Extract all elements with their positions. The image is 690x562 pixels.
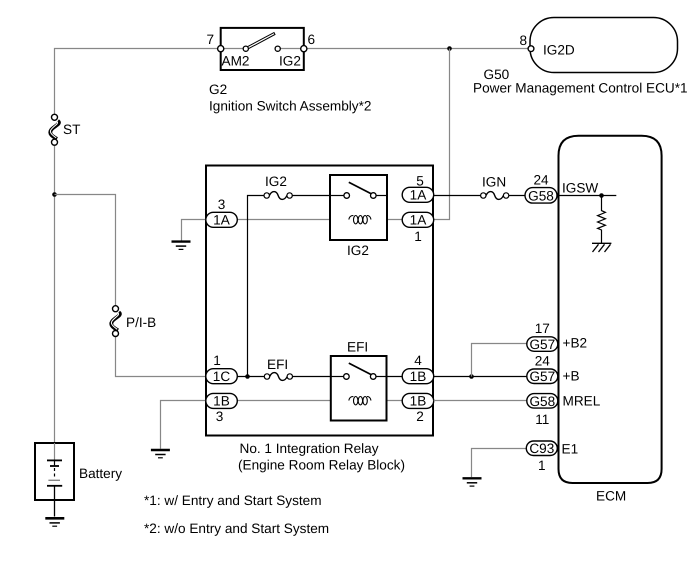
svg-text:*2: w/o Entry and Start System: *2: w/o Entry and Start System xyxy=(144,521,329,536)
svg-text:G57: G57 xyxy=(529,369,555,384)
wire IG2 contact to terminal6 xyxy=(280,48,303,50)
svg-text:6: 6 xyxy=(308,32,316,47)
wire pin 1B/3 to ground xyxy=(161,401,206,449)
svg-text:1C: 1C xyxy=(213,369,231,384)
EFI coil xyxy=(349,396,371,404)
node junction EFI row xyxy=(245,374,250,379)
svg-text:4: 4 xyxy=(414,353,422,368)
wire coil row EFI (1B/3 to coil to 1B/2) xyxy=(237,400,402,402)
svg-text:1B: 1B xyxy=(410,394,427,409)
node junction battery branch xyxy=(52,192,57,197)
terminal 6 circle xyxy=(301,46,307,52)
svg-text:G57: G57 xyxy=(529,337,555,352)
internal line pin5 to IGN xyxy=(434,195,481,197)
wire E1 to ground xyxy=(472,449,527,478)
wire junction to +B2 xyxy=(472,344,527,377)
svg-text:ST: ST xyxy=(63,122,80,137)
fuse ST xyxy=(50,114,80,145)
oval terminal G58 pin24 (IGSW) xyxy=(525,173,557,204)
fuse P/I-B xyxy=(111,306,156,337)
fuse IGN xyxy=(481,175,509,200)
svg-text:1A: 1A xyxy=(410,213,428,228)
ground (ECM internal, hatched) xyxy=(592,243,611,252)
wire battery to ignition switch (left vertical + top horizontal) xyxy=(55,49,221,461)
svg-text:24: 24 xyxy=(533,173,549,188)
svg-text:Power Management Control ECU*1: Power Management Control ECU*1 xyxy=(473,81,688,96)
svg-text:3: 3 xyxy=(216,409,224,424)
contact AM2 circle xyxy=(243,46,248,51)
wire IGN fuse to G58 xyxy=(509,195,525,197)
oval terminal 1B pin2 (right) xyxy=(402,393,434,424)
svg-text:(Engine Room Relay Block): (Engine Room Relay Block) xyxy=(238,458,405,473)
fuse IG2 xyxy=(264,174,292,199)
svg-text:17: 17 xyxy=(535,321,550,336)
wire pin 1A/3 to ground xyxy=(182,220,206,241)
relay IG2 box xyxy=(330,175,387,240)
ground (battery) xyxy=(45,518,64,526)
svg-text:11: 11 xyxy=(535,412,549,427)
ground (E1) xyxy=(463,478,482,486)
svg-text:IG2: IG2 xyxy=(279,54,301,69)
ECM block xyxy=(559,136,662,483)
svg-text:5: 5 xyxy=(416,174,424,189)
svg-text:1B: 1B xyxy=(213,394,230,409)
terminal 8 circle xyxy=(528,46,534,52)
wire junction down to relay pin 1A/1 xyxy=(434,49,450,220)
wire ignition switch to G50 xyxy=(304,48,529,50)
svg-text:Battery: Battery xyxy=(79,466,122,481)
wire IGSW internal + resistor xyxy=(558,195,617,197)
svg-text:1A: 1A xyxy=(213,213,231,228)
G50 Power Management Control ECU box xyxy=(530,18,678,73)
wire pin4 to +B with junction xyxy=(434,376,527,378)
svg-text:G2: G2 xyxy=(209,82,227,97)
svg-text:Ignition Switch Assembly*2: Ignition Switch Assembly*2 xyxy=(209,99,371,114)
oval terminal G58 pin11 (MREL) xyxy=(527,394,558,427)
internal line IG2 fuse row xyxy=(248,196,331,377)
battery box xyxy=(35,443,74,500)
svg-text:C93: C93 xyxy=(529,441,554,456)
EFI switch contact xyxy=(331,363,387,379)
oval terminal 1A pin5 (right) xyxy=(402,174,434,203)
svg-text:1: 1 xyxy=(538,458,546,473)
oval terminal 1B pin3 (left) xyxy=(206,393,238,424)
ground (left of relay) xyxy=(172,242,191,250)
svg-text:1B: 1B xyxy=(410,369,427,384)
relay block No.1 Integration Relay xyxy=(206,166,433,436)
svg-text:IG2: IG2 xyxy=(347,243,369,258)
svg-text:AM2: AM2 xyxy=(222,54,250,69)
svg-text:E1: E1 xyxy=(562,442,579,457)
svg-text:8: 8 xyxy=(520,33,528,48)
oval terminal 1C pin1 (left) xyxy=(206,353,238,384)
svg-text:G58: G58 xyxy=(528,188,554,203)
internal line EFI row (1C to dot to fuse to box to pin4) xyxy=(237,376,402,378)
oval terminal G57 pin17 (+B2) xyxy=(527,321,558,352)
svg-text:2: 2 xyxy=(416,409,424,424)
fuse EFI xyxy=(264,357,292,380)
svg-text:MREL: MREL xyxy=(563,393,601,408)
svg-text:EFI: EFI xyxy=(347,340,368,355)
svg-text:7: 7 xyxy=(207,32,215,47)
oval terminal 1A pin1 (right) xyxy=(402,212,434,244)
svg-text:IG2: IG2 xyxy=(265,174,287,189)
oval terminal C93 pin1 (E1) xyxy=(526,441,557,473)
relay EFI box xyxy=(331,356,387,421)
battery cell symbol xyxy=(47,443,62,517)
svg-text:EFI: EFI xyxy=(267,357,288,372)
svg-text:P/I-B: P/I-B xyxy=(126,315,156,330)
oval terminal 1A pin3 (left) xyxy=(206,197,238,228)
ground (below left of relay) xyxy=(151,450,170,458)
wire MREL (1B/2 to G58) xyxy=(434,400,527,402)
wire battery branch to fuse P/I-B and relay pin 1C xyxy=(55,195,206,377)
svg-text:3: 3 xyxy=(218,197,226,212)
svg-text:+B: +B xyxy=(563,369,580,384)
switch lever xyxy=(248,33,275,49)
svg-text:24: 24 xyxy=(535,354,551,369)
svg-text:*1: w/ Entry and Start System: *1: w/ Entry and Start System xyxy=(144,493,322,508)
contact IG2 circle xyxy=(275,46,280,51)
svg-text:G58: G58 xyxy=(529,394,555,409)
svg-text:1: 1 xyxy=(414,229,422,244)
node junction +B/+B2 xyxy=(469,374,474,379)
ignition switch box G2 xyxy=(221,28,304,70)
IG2 coil xyxy=(349,215,371,223)
svg-text:IGSW: IGSW xyxy=(562,180,598,195)
wire terminal7 to AM2 xyxy=(222,48,244,50)
terminal 7 circle xyxy=(218,46,224,52)
svg-text:No. 1 Integration Relay: No. 1 Integration Relay xyxy=(240,441,379,456)
resistor (IGSW pull) xyxy=(598,196,606,244)
svg-text:+B2: +B2 xyxy=(563,335,588,350)
svg-text:1A: 1A xyxy=(410,188,428,203)
svg-text:IGN: IGN xyxy=(482,175,506,190)
oval terminal 1B pin4 (right) xyxy=(402,353,434,384)
oval terminal G57 pin24 (+B) xyxy=(527,354,558,385)
svg-text:ECM: ECM xyxy=(596,489,626,504)
svg-text:IG2D: IG2D xyxy=(543,43,575,58)
node junction top (to relay pin 1A/1) xyxy=(447,46,452,51)
IG2 switch contact xyxy=(330,182,387,198)
node junction IGSW resistor xyxy=(599,193,604,198)
svg-text:1: 1 xyxy=(213,353,221,368)
wire coil row IG2 (pin 1A/3 to coil to pin 1A/1) xyxy=(237,219,402,221)
